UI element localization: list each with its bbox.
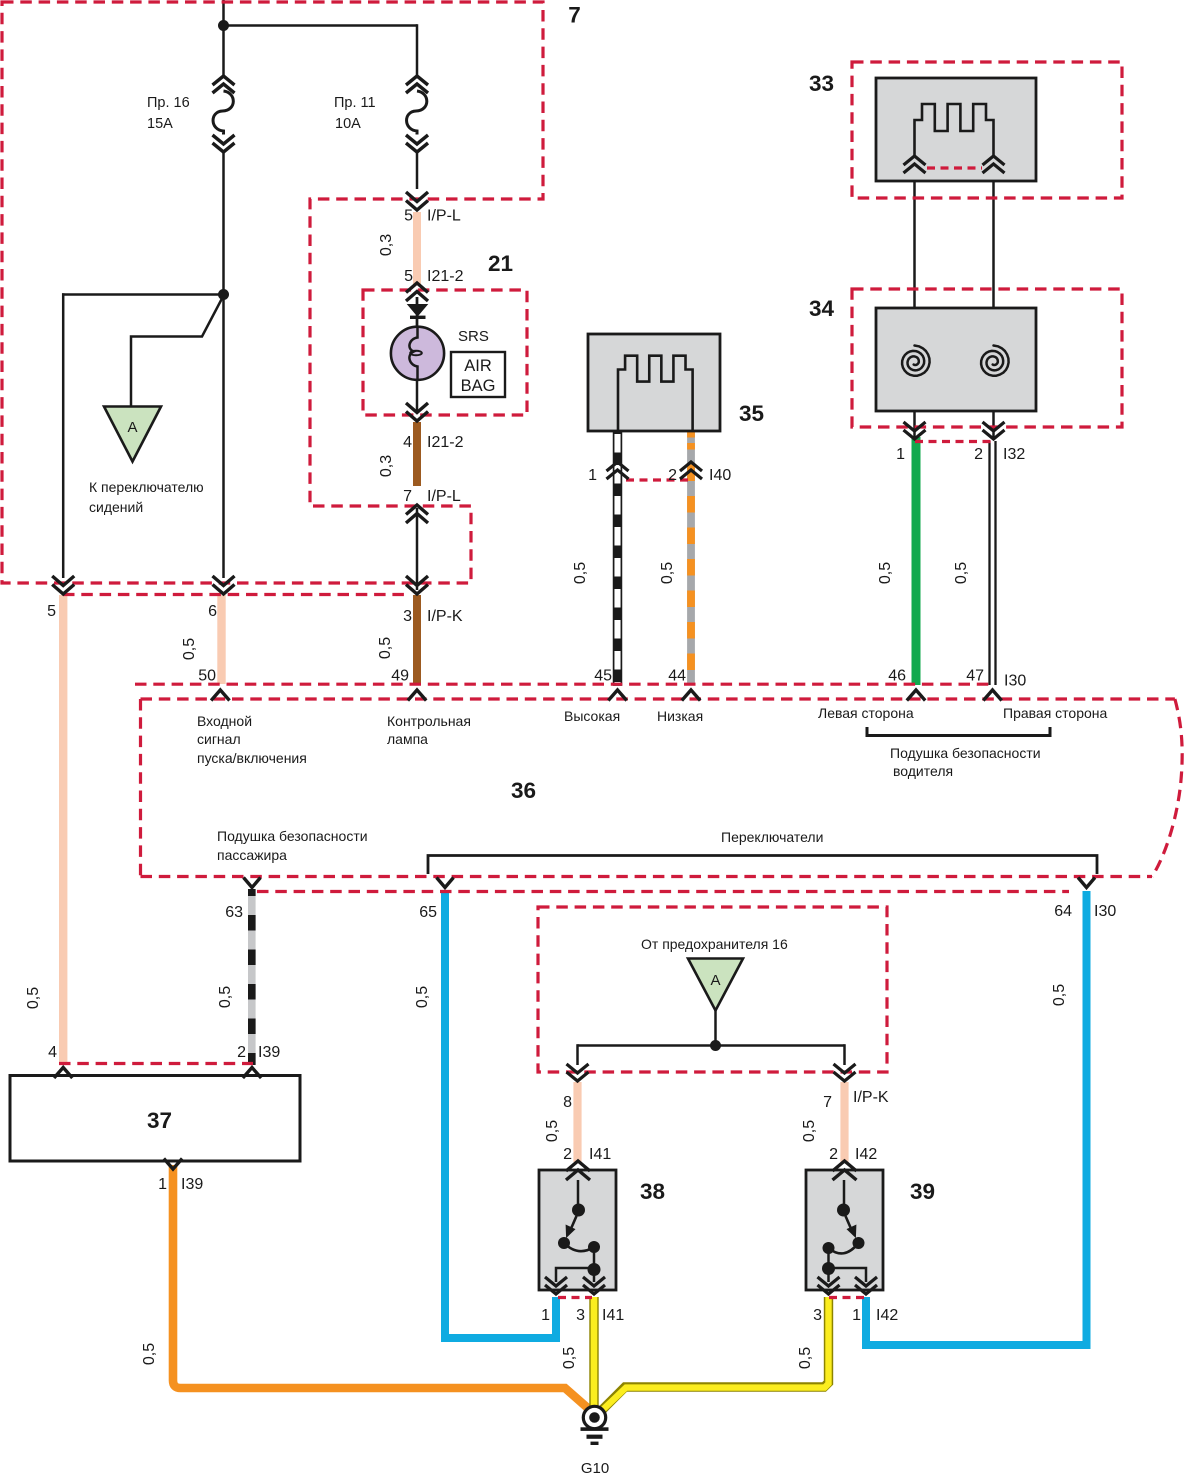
clock spring coil 1 [902, 346, 930, 376]
svg-text:пассажира: пассажира [217, 847, 287, 863]
wire 0,5 brown pin3 to pin49 [413, 595, 421, 684]
wire pin5 vertical [62, 293, 65, 578]
module 36 pin 65 [437, 878, 454, 888]
wire 0,5 gray-orange pin2 to pin44 [687, 431, 695, 685]
dashed enclosure 33 (passenger squib?) [852, 62, 1122, 198]
svg-text:0,5: 0,5 [181, 638, 198, 660]
wire 0,5 green pin1 to pin46 [912, 437, 921, 685]
svg-text:1: 1 [896, 446, 905, 463]
wire 0,5 black-white pin1 to pin45 [614, 431, 622, 685]
component 33 airbag squib body [876, 78, 1036, 181]
wire clockspring pin2 out [992, 377, 995, 440]
svg-text:I/P-K: I/P-K [853, 1089, 889, 1106]
connector I42 dashed link [829, 1296, 865, 1299]
switch39 pin1 connector [855, 1285, 877, 1294]
svg-text:7: 7 [403, 488, 412, 505]
svg-text:5: 5 [404, 268, 413, 285]
wire 0,3 brown I21-2 to I/P-L [413, 422, 421, 486]
wire triangle to junction [714, 1011, 717, 1047]
switch39 pin3 connector [818, 1285, 840, 1294]
module 36 bottom edge [141, 875, 1153, 878]
svg-text:0,5: 0,5 [953, 562, 970, 584]
wire 0,5 yellow switch38 pin3 to ground G10 [589, 1297, 598, 1408]
clock spring pin2 connector [983, 430, 1005, 439]
svg-text:I41: I41 [589, 1146, 611, 1163]
svg-text:0,5: 0,5 [801, 1120, 818, 1142]
component 37 body [10, 1076, 300, 1162]
svg-text:63: 63 [225, 904, 243, 921]
svg-text:2: 2 [829, 1146, 838, 1163]
svg-text:2: 2 [668, 467, 677, 484]
svg-text:1: 1 [852, 1307, 861, 1324]
svg-text:Подушка безопасности: Подушка безопасности [890, 745, 1041, 761]
squib 35 element [618, 356, 693, 431]
svg-text:AIR: AIR [464, 357, 492, 375]
connector I33 dashed link [927, 166, 982, 169]
svg-text:2: 2 [563, 1146, 572, 1163]
wire squib33 pin2 to clockspring [992, 172, 995, 347]
connector I21-2 pin4 [406, 412, 428, 422]
module 36 top edge [141, 697, 1175, 700]
svg-text:I40: I40 [709, 467, 731, 484]
svg-text:46: 46 [888, 668, 906, 685]
svg-text:1: 1 [588, 467, 597, 484]
fuse Пр.16 15А [213, 76, 235, 85]
svg-text:1: 1 [541, 1307, 550, 1324]
squib 33 pin1 connector [904, 156, 926, 165]
svg-text:33: 33 [809, 71, 834, 96]
svg-text:0,5: 0,5 [414, 986, 431, 1008]
svg-text:36: 36 [511, 778, 536, 803]
wire 0,5 pink fuse16 to switch38 pin2 [573, 1082, 581, 1162]
connector I/P-K pin7 [834, 1072, 856, 1081]
svg-text:0,5: 0,5 [217, 986, 234, 1008]
switch38 pin3 connector [583, 1285, 605, 1294]
svg-text:сидений: сидений [89, 499, 143, 515]
module 36 pin 63 [244, 878, 261, 888]
svg-text:I/P-K: I/P-K [427, 608, 463, 625]
svg-text:64: 64 [1054, 903, 1072, 920]
connector line I/P second row [63, 593, 410, 596]
ground G10 terminal [583, 1406, 605, 1428]
wire 0,5 blue pin64 to switch39 pin1 [866, 891, 1087, 1345]
svg-text:От предохранителя 16: От предохранителя 16 [641, 936, 788, 952]
fuse Пр.11 10А [406, 76, 428, 85]
svg-text:0,5: 0,5 [25, 987, 42, 1009]
svg-text:I30: I30 [1004, 673, 1026, 690]
SRS warning lamp [391, 327, 444, 380]
junction fuse16 [710, 1040, 721, 1051]
wire 0,5 white pin2 to pin47 [988, 441, 990, 685]
svg-text:6: 6 [208, 603, 217, 620]
svg-text:пуска/включения: пуска/включения [197, 750, 307, 766]
wire squib33 pin1 to clockspring [913, 172, 916, 347]
AIR BAG box [451, 352, 505, 397]
wire 0,5 gray-black pin63 to pin2 I39 [248, 889, 256, 1065]
squib 33 pin2 connector [983, 156, 1005, 165]
svg-text:SRS: SRS [458, 328, 489, 345]
wire fuse16 horizontal [578, 1044, 845, 1047]
svg-text:I42: I42 [855, 1146, 877, 1163]
svg-text:I32: I32 [1003, 446, 1025, 463]
wire branch left from J2 [62, 293, 224, 296]
dashed enclosure 7 (fuse box) [2, 2, 543, 583]
switch38 pin1 connector [545, 1285, 567, 1294]
svg-text:Пр. 16: Пр. 16 [147, 95, 190, 111]
diode [416, 297, 419, 306]
svg-text:Левая сторона: Левая сторона [818, 705, 914, 721]
module 36 right wavy edge [1152, 699, 1182, 877]
svg-text:4: 4 [48, 1044, 57, 1061]
module 36 pin 47 [983, 690, 1001, 701]
svg-text:0,5: 0,5 [572, 562, 589, 584]
svg-text:5: 5 [404, 208, 413, 225]
svg-text:I21-2: I21-2 [427, 434, 464, 451]
svg-text:I42: I42 [876, 1307, 898, 1324]
clock spring pin1 connector [904, 430, 926, 439]
svg-text:0,5: 0,5 [797, 1347, 814, 1369]
off-page connector A (to seat switch) [104, 407, 161, 462]
module 36 pin 46 [907, 690, 925, 701]
svg-text:I21-2: I21-2 [427, 268, 464, 285]
svg-text:Переключатели: Переключатели [721, 829, 823, 845]
svg-text:0,5: 0,5 [377, 637, 394, 659]
svg-text:Входной: Входной [197, 713, 252, 729]
svg-text:0,5: 0,5 [659, 562, 676, 584]
svg-text:39: 39 [910, 1179, 935, 1204]
clock spring coil 2 [981, 346, 1009, 376]
module 36 bottom connector line [257, 890, 1069, 893]
component 37 pin1 connector [164, 1159, 182, 1170]
dashed enclosure 34 (clock spring) [852, 289, 1122, 427]
module 36 pin 45 [608, 690, 626, 701]
module 36 left edge [139, 699, 142, 877]
svg-text:3: 3 [403, 608, 412, 625]
svg-text:Контрольная: Контрольная [387, 713, 471, 729]
svg-text:3: 3 [813, 1307, 822, 1324]
svg-text:0,3: 0,3 [378, 455, 395, 477]
module 36 pin 50 [211, 690, 229, 701]
wire 0,5 yellow switch39 pin3 to ground G10 [602, 1297, 829, 1411]
svg-text:0,5: 0,5 [561, 1347, 578, 1369]
connector I/P-K pin8 [567, 1072, 589, 1081]
svg-text:I30: I30 [1094, 903, 1116, 920]
svg-text:G10: G10 [581, 1460, 609, 1475]
svg-text:45: 45 [594, 668, 612, 685]
connector I39 dashed link [59, 1062, 253, 1065]
svg-text:I41: I41 [602, 1307, 624, 1324]
component 38 switch body [539, 1170, 616, 1290]
wire I/P-L pin7 down to I/P-K pin3 [416, 508, 419, 590]
component 37 pin4 connector [54, 1068, 72, 1079]
svg-text:1: 1 [158, 1176, 167, 1193]
svg-text:Подушка безопасности: Подушка безопасности [217, 828, 368, 844]
connector I/P-K pin3 [406, 585, 428, 595]
wire feed horizontal to fuse Пр.11 [222, 24, 417, 27]
connector I/P pin6 [213, 585, 235, 595]
svg-text:3: 3 [576, 1307, 585, 1324]
svg-text:34: 34 [809, 296, 835, 321]
wire main feed vertical from top [222, 0, 225, 76]
connector I41 dashed link [558, 1296, 592, 1299]
svg-text:Низкая: Низкая [657, 708, 703, 724]
wire 0,5 blue pin65 to switch38 pin1 [445, 890, 556, 1338]
svg-text:0,5: 0,5 [877, 562, 894, 584]
svg-text:50: 50 [198, 668, 216, 685]
svg-text:Высокая: Высокая [564, 708, 620, 724]
svg-text:49: 49 [391, 668, 409, 685]
connector I/P pin5 [52, 585, 74, 595]
wire 0,5 pink fuse16 to switch39 pin2 [840, 1082, 848, 1162]
component 39 switch body [806, 1170, 883, 1290]
wire J2 down to pin 6 [222, 295, 225, 579]
junction J2 [218, 289, 229, 300]
svg-text:0,5: 0,5 [141, 1343, 158, 1365]
component 37 pin2 connector [243, 1068, 261, 1079]
svg-text:21: 21 [488, 251, 513, 276]
svg-text:44: 44 [668, 668, 686, 685]
component 34 clock spring body [876, 308, 1036, 411]
svg-text:Правая сторона: Правая сторона [1003, 705, 1108, 721]
svg-text:38: 38 [640, 1179, 665, 1204]
wire clockspring pin1 out [913, 377, 916, 440]
wire 0,5 orange box37 pin1 to ground G10 [173, 1165, 590, 1410]
module 36 top connector line [135, 683, 990, 686]
wire 0,5 pink pin6 to pin50 [217, 595, 225, 684]
svg-text:35: 35 [739, 401, 764, 426]
svg-text:7: 7 [823, 1094, 832, 1111]
wire lamp top [416, 297, 419, 330]
switch39 pin2 connector [833, 1161, 857, 1171]
svg-text:0,3: 0,3 [378, 234, 395, 256]
svg-text:5: 5 [47, 603, 56, 620]
svg-text:15А: 15А [147, 116, 173, 132]
connector I/P-L pin5 [406, 201, 428, 211]
svg-text:0,5: 0,5 [1051, 984, 1068, 1006]
svg-text:47: 47 [966, 668, 984, 685]
wire branch to seat-switch triangle [131, 298, 223, 408]
svg-text:7: 7 [568, 3, 581, 28]
off-page connector A (from fuse 16) [688, 959, 743, 1011]
svg-text:I/P-L: I/P-L [427, 488, 461, 505]
connector I32 dashed link [915, 440, 994, 443]
svg-text:65: 65 [419, 904, 437, 921]
junction J1 [218, 20, 229, 31]
svg-text:водителя: водителя [893, 763, 953, 779]
module 36 pin 49 [408, 690, 426, 701]
wire fuse2 to connector I/P-L [416, 152, 419, 189]
bracket Переключатели [428, 856, 1097, 875]
svg-text:А: А [710, 972, 720, 989]
squib 35 pin1 connector [607, 462, 629, 471]
svg-text:Пр. 11: Пр. 11 [334, 95, 376, 111]
svg-text:10А: 10А [335, 116, 361, 132]
switch38 pin2 connector [566, 1161, 590, 1171]
svg-text:2: 2 [237, 1044, 246, 1061]
wire 0,3 pink I/P-L to I21-2 [413, 212, 421, 285]
svg-text:BAG: BAG [461, 377, 496, 395]
squib 33 element [915, 104, 994, 158]
svg-text:сигнал: сигнал [197, 731, 241, 747]
module 36 pin 64 [1078, 878, 1095, 888]
switch39 mechanism [843, 1180, 846, 1206]
svg-text:37: 37 [147, 1108, 172, 1133]
svg-text:I/P-L: I/P-L [427, 208, 461, 225]
connector I40 dashed link [626, 478, 689, 481]
wire 0,5 pink pin5 down to pin4 [59, 595, 67, 1065]
svg-text:А: А [127, 419, 137, 436]
svg-text:I39: I39 [181, 1176, 203, 1193]
switch38 mechanism [577, 1180, 580, 1206]
component 35 passenger squib body [588, 334, 720, 431]
dashed enclosure fuse16 feed [538, 907, 887, 1072]
svg-text:лампа: лампа [387, 731, 428, 747]
bracket driver airbag [867, 727, 1050, 736]
svg-text:8: 8 [563, 1094, 572, 1111]
wire lamp bottom [416, 378, 419, 412]
svg-text:К переключателю: К переключателю [89, 479, 204, 495]
dashed enclosure 21 (SRS warning lamp) [363, 290, 527, 415]
svg-text:0,5: 0,5 [544, 1120, 561, 1142]
wire fuse1 to junction J2 [222, 152, 225, 296]
svg-text:4: 4 [403, 434, 412, 451]
svg-text:I39: I39 [258, 1044, 280, 1061]
squib 35 pin2 connector [680, 462, 702, 471]
module 36 pin 44 [682, 690, 700, 701]
svg-text:2: 2 [974, 446, 983, 463]
